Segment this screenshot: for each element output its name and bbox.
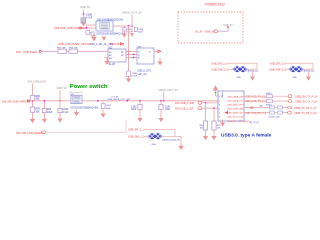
svg-text:USB3_RX_TX_N_3V: USB3_RX_TX_N_3V — [295, 100, 318, 103]
svg-text:LB2016-222: LB2016-222 — [247, 70, 260, 72]
svg-text:R52 10K: R52 10K — [57, 48, 66, 50]
svg-text:Power switch: Power switch — [70, 84, 108, 90]
svg-text:USB_DM_1_L: USB_DM_1_L — [128, 135, 145, 139]
svg-text:LB2016-222(2.2K): LB2016-222(2.2K) — [162, 139, 180, 141]
svg-text:USB_DM_3_L: USB_DM_3_L — [269, 68, 287, 72]
svg-text:USB_SSTX_DM: USB_SSTX_DM — [227, 116, 243, 118]
svg-text:R43 0: R43 0 — [266, 93, 273, 95]
svg-text:0.1uF: 0.1uF — [63, 112, 69, 114]
svg-text:10K: 10K — [36, 99, 41, 101]
svg-text:USB_DP_2_L: USB_DP_2_L — [211, 62, 228, 66]
svg-text:USB_5V: USB_5V — [80, 5, 91, 9]
svg-text:USB3_RX_TX_P_3V: USB3_RX_TX_P_3V — [295, 96, 318, 99]
svg-text:USB3_IC_TYPE_A(-10): USB3_IC_TYPE_A(-10) — [227, 120, 251, 123]
svg-text:C193: C193 — [165, 106, 171, 108]
svg-text:C192: C192 — [131, 106, 137, 108]
svg-text:10uF: 10uF — [138, 32, 144, 34]
svg-text:SL-08: SL-08 — [109, 64, 116, 66]
svg-text:C194 C195: C194 C195 — [269, 116, 281, 118]
svg-text:USB_SSRX_DP: USB_SSRX_DP — [227, 112, 243, 114]
svg-text:USB_5VEN: USB_5VEN — [23, 50, 37, 54]
svg-text:USB_DP_3_L: USB_DP_3_L — [269, 62, 286, 66]
svg-text:VBUS_OUT_5V: VBUS_OUT_5V — [159, 88, 178, 92]
svg-text:100K: 100K — [47, 112, 53, 114]
svg-text:L7 1.5K: L7 1.5K — [111, 96, 119, 98]
svg-text:VBUS_OUT_5V: VBUS_OUT_5V — [122, 11, 142, 15]
svg-text:USB_DATA_DM: USB_DATA_DM — [227, 95, 243, 98]
svg-text:DNI USB_HUB_PWRON2: DNI USB_HUB_PWRON2 — [2, 101, 31, 104]
svg-text:R39: R39 — [36, 109, 41, 111]
svg-text:0.1uF: 0.1uF — [132, 76, 138, 78]
svg-text:10K: 10K — [36, 111, 41, 113]
svg-text:USB_DP_1_L: USB_DP_1_L — [128, 128, 145, 132]
svg-text:C189: C189 — [132, 73, 138, 75]
svg-text:15K: 15K — [217, 128, 221, 130]
svg-text:USB_DATA_DP: USB_DATA_DP — [227, 99, 243, 102]
svg-text:USB3_TX_RX_P_3V: USB3_TX_RX_P_3V — [294, 107, 317, 110]
svg-text:5V0_USB_HUB: 5V0_USB_HUB — [28, 79, 47, 83]
svg-text:DNI USB_HUB_RESETn: DNI USB_HUB_RESETn — [16, 132, 45, 135]
svg-text:USB_5V: USB_5V — [224, 24, 234, 27]
svg-text:R53 10K: R53 10K — [69, 48, 78, 50]
svg-text:15K: 15K — [200, 128, 204, 130]
svg-text:USB_HUB_TX_2_L: USB_HUB_TX_2_L — [245, 100, 267, 103]
svg-text:GND: GND — [152, 144, 157, 146]
svg-text:SOT23-5(SY6280AAC+5V): SOT23-5(SY6280AAC+5V) — [70, 107, 98, 110]
svg-text:USB_DM_2_L: USB_DM_2_L — [211, 68, 229, 72]
svg-text:DNI USB_2_DM: DNI USB_2_DM — [175, 101, 194, 105]
svg-text:USB3.0_type A female: USB3.0_type A female — [221, 132, 272, 138]
svg-text:DNI USB_2_DP: DNI USB_2_DP — [175, 106, 194, 110]
svg-text:5V_IN: 5V_IN — [195, 30, 202, 34]
svg-text:C191: C191 — [106, 105, 112, 107]
svg-text:USB_GND_DETn: USB_GND_DETn — [227, 104, 245, 106]
svg-text:POWER SELn: POWER SELn — [205, 3, 226, 7]
svg-text:A_TX_01: A_TX_01 — [250, 121, 260, 124]
svg-text:LB2016-222: LB2016-222 — [303, 70, 316, 72]
svg-text:USB3_TX_RX_N_3V: USB3_TX_RX_N_3V — [294, 112, 317, 115]
svg-text:10uF: 10uF — [131, 109, 137, 111]
svg-text:USB_5V: USB_5V — [57, 86, 68, 90]
svg-text:<ath_mt>: <ath_mt> — [137, 73, 147, 76]
svg-text:USB_A_OTG: USB_A_OTG — [137, 70, 151, 73]
svg-text:D-: D- — [138, 55, 140, 57]
svg-text:USB_HUB_5VEN_GPIO4: USB_HUB_5VEN_GPIO4 — [58, 42, 89, 46]
svg-text:DNI: DNI — [16, 50, 21, 54]
svg-text:10uF: 10uF — [106, 108, 112, 110]
svg-text:SOT23-5(SY6280AAC+5V): SOT23-5(SY6280AAC+5V) — [96, 33, 125, 36]
svg-text:GND: GND — [293, 77, 298, 79]
svg-text:GND: GND — [237, 77, 242, 79]
svg-text:10uF: 10uF — [165, 109, 171, 111]
svg-text:R38: R38 — [36, 96, 41, 98]
svg-text:USB_5V: USB_5V — [205, 30, 215, 34]
svg-text:VBUS: VBUS — [222, 92, 224, 98]
svg-text:USB_SSRX_DM: USB_SSRX_DM — [227, 108, 243, 110]
svg-text:4.7uF: 4.7uF — [86, 16, 93, 19]
